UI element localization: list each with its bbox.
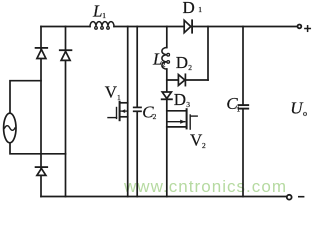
svg-text:L: L [92,2,102,21]
svg-text:D: D [174,90,186,109]
svg-text:2: 2 [188,63,192,72]
inductor L2 [162,48,170,70]
wire top rail right segment [114,26,297,28]
AC source G [4,113,16,143]
diode D1 [184,20,192,32]
capacitor C2 [134,27,141,197]
wire D2 up to rail [207,27,209,81]
svg-text:V: V [105,83,118,102]
wire V1 drain/source vertical [127,27,129,197]
terminal + [298,25,302,29]
diode D2 [178,74,185,85]
wire D2 horizontal [167,79,208,81]
svg-text:2: 2 [162,60,166,69]
svg-text:3: 3 [186,100,190,109]
svg-text:1: 1 [117,93,121,102]
wire bridge left vertical [40,27,42,197]
svg-text:2: 2 [153,112,157,121]
svg-text:1: 1 [198,5,202,14]
wire top rail left segment [41,26,90,28]
transistor V1 [108,102,128,120]
terminal - [287,195,292,200]
transistor V2 [167,109,197,129]
svg-text:2: 2 [202,141,206,150]
diode bridge bottom-left [36,167,48,175]
diode bridge top-left [36,48,48,59]
svg-text:D: D [176,53,188,72]
svg-text:1: 1 [237,104,241,113]
wire V2 vertical [166,99,168,196]
diode bridge top-right [60,50,72,60]
wire L2 branch top [166,27,168,48]
inductor L1 [90,22,114,30]
svg-text:www.cntronics.com: www.cntronics.com [123,177,286,196]
diode D3 [162,92,172,99]
svg-text:o: o [303,109,307,118]
wire AC input bottom [10,143,66,154]
svg-text:1: 1 [102,11,106,20]
wire AC input top [10,81,41,114]
wire bridge right vertical [65,27,67,197]
svg-text:D: D [183,0,195,17]
wire bottom rail [41,196,287,198]
capacitor C1 [239,27,249,197]
wire L2 to node [166,69,168,92]
